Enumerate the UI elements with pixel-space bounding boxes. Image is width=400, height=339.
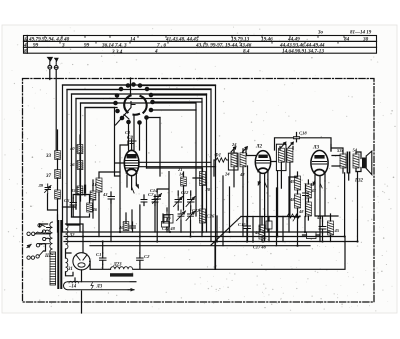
wire AVC diagonal	[211, 217, 287, 246]
band switch wiring loop 2	[67, 90, 211, 242]
band switch wiring loop 1	[63, 85, 216, 269]
mains selector terminals	[27, 224, 50, 260]
component box 47	[164, 215, 173, 224]
dial frequency table frame	[24, 36, 377, 54]
svg-text:36: 36	[69, 162, 75, 167]
grid box R7	[266, 221, 272, 229]
svg-text:19.46: 19.46	[261, 37, 273, 43]
padder cap C22	[174, 195, 183, 207]
svg-text:21: 21	[177, 167, 182, 172]
svg-text:20: 20	[205, 187, 211, 192]
wire output transformer	[331, 145, 356, 174]
coil L41	[69, 161, 83, 170]
wire speaker leads	[356, 152, 361, 172]
wire mid verticals	[99, 166, 358, 246]
table row 1 numerals	[23, 37, 369, 43]
wire AVC section	[247, 217, 269, 242]
ground terminal	[54, 66, 58, 70]
svg-text:С2: С2	[144, 254, 150, 259]
wire antenna leads	[50, 69, 56, 150]
IF transformer F1 primary	[224, 153, 237, 177]
transformer core	[58, 221, 61, 288]
cap C10	[141, 195, 147, 206]
heater bus bar	[64, 281, 137, 290]
AVC cap C15	[238, 221, 251, 233]
coil L37	[45, 170, 60, 180]
table row 2 numerals	[23, 43, 325, 49]
svg-text:8: 8	[24, 49, 27, 55]
tube L2 cathode arrows	[258, 180, 267, 187]
resistor R5	[90, 191, 96, 200]
oscillator coil L26	[200, 209, 215, 223]
trimmer C24	[243, 147, 248, 152]
band switch wiring loop 6	[85, 108, 117, 194]
svg-text:30: 30	[362, 37, 369, 43]
wire tube L2 leads	[260, 171, 268, 184]
svg-text:41.43.48. 44.45: 41.43.48. 44.45	[165, 37, 199, 43]
wire top mid trimmer leads	[234, 147, 293, 153]
wire tube L1 leads	[127, 174, 136, 190]
tube L1 (converter)	[124, 150, 139, 175]
filter cap C1	[96, 252, 106, 264]
oscillator coil L14	[179, 172, 186, 187]
transformer HV secondary	[66, 224, 69, 249]
output transformer primary	[337, 148, 346, 168]
cathode resistor R45	[328, 221, 340, 235]
wire heater drops	[75, 270, 82, 282]
band switch wiring loop 3	[72, 94, 207, 217]
filter cap C2	[137, 253, 150, 264]
cap C13	[130, 222, 136, 232]
wire rectifier connections	[35, 224, 90, 276]
rectifier tube L4	[73, 253, 90, 270]
mains plug arrow	[27, 245, 31, 248]
svg-text:С14: С14	[150, 188, 158, 193]
table row 3 numerals	[24, 49, 324, 55]
table header numerals above right	[317, 31, 372, 36]
svg-text:С26: С26	[207, 214, 215, 219]
table tick marks	[45, 36, 344, 44]
IF transformer F2 primary	[278, 148, 284, 162]
bus line 4	[90, 245, 310, 247]
svg-text:99: 99	[84, 43, 90, 49]
wire detector section	[278, 172, 306, 217]
svg-text:24: 24	[231, 142, 237, 147]
coil L33	[45, 151, 60, 160]
padder cap C23a	[186, 195, 195, 207]
svg-text:39: 39	[38, 183, 44, 188]
output transformer core	[347, 152, 349, 173]
output transformer secondary	[353, 148, 360, 169]
wire oscillator section	[147, 168, 203, 242]
wire osc grid	[99, 172, 120, 195]
svg-text:Д23: Д23	[113, 263, 123, 268]
wire top coupling run	[275, 138, 332, 151]
svg-text:7 . 6: 7 . 6	[157, 43, 166, 49]
svg-text:Л3: Л3	[96, 285, 103, 290]
loudspeaker Gr	[354, 151, 372, 183]
svg-text:С8: С8	[125, 130, 131, 135]
antenna terminal A	[48, 65, 52, 69]
svg-text:31: 31	[67, 267, 73, 272]
bus line 2	[64, 236, 345, 238]
band switch wiring loop 4	[76, 99, 202, 210]
coil L38	[55, 190, 61, 199]
trimmer C27	[281, 142, 286, 147]
rotary band switch S1	[114, 83, 154, 125]
coil L40	[69, 145, 83, 154]
IF transformer F2 shield box	[276, 144, 286, 170]
wire switch to tube and coils	[129, 116, 161, 177]
svg-text:8.4: 8.4	[243, 49, 250, 55]
wire switch contact stubs	[63, 85, 216, 118]
cap C25 pair	[162, 211, 171, 227]
coupling cap C18	[294, 131, 308, 142]
wire right step	[215, 237, 345, 270]
svg-text:14.64.90.91.34.7-13: 14.64.90.91.34.7-13	[282, 49, 324, 55]
svg-text:Ф1: Ф1	[215, 154, 221, 159]
svg-text:14: 14	[130, 37, 136, 43]
trimmer C28	[289, 142, 294, 147]
detector resistor R8	[289, 176, 301, 190]
svg-text:4: 4	[154, 49, 158, 55]
svg-text:81—14 19: 81—14 19	[350, 31, 372, 36]
volume pot R10 (zigzag)	[287, 214, 300, 221]
svg-text:С8: С8	[127, 136, 133, 141]
heater labels	[68, 285, 103, 290]
svg-text:40: 40	[69, 146, 75, 151]
wire L2 screen	[247, 154, 256, 156]
IF transformer F1 shield box	[228, 153, 238, 170]
svg-text:Л3: Л3	[312, 145, 320, 151]
svg-text:43: 43	[102, 192, 108, 197]
svg-text:Л2: Л2	[255, 144, 263, 150]
svg-text:С5: С5	[64, 198, 70, 203]
svg-text:35: 35	[70, 188, 76, 193]
svg-text:С12: С12	[181, 190, 189, 195]
wire filter section	[90, 237, 215, 270]
resistor R11	[118, 222, 129, 231]
oscillator coil L20	[200, 172, 211, 193]
cap C9	[102, 192, 115, 203]
wire tube L1 plate to loop1	[139, 162, 216, 166]
svg-text:46: 46	[118, 225, 124, 230]
svg-text:3о: 3о	[317, 31, 324, 36]
padder cap C21	[148, 192, 162, 204]
component box R44	[307, 232, 317, 239]
wire grid cap link	[115, 108, 132, 177]
svg-text:49: 49	[309, 182, 315, 187]
svg-text:46: 46	[92, 207, 98, 212]
transformer primary winding	[45, 222, 53, 254]
filter choke D23	[110, 263, 133, 277]
wire coil bank two	[63, 135, 94, 232]
svg-text:48: 48	[298, 209, 304, 214]
wire switch feed	[130, 78, 132, 94]
heater bus arrows	[128, 282, 136, 290]
tube L3 cathode arrows	[313, 180, 322, 188]
bus line 1	[63, 231, 331, 233]
svg-text:42: 42	[239, 172, 245, 177]
bus junction dots	[82, 231, 359, 247]
svg-text:41: 41	[91, 182, 96, 187]
svg-text:3: 3	[61, 43, 65, 49]
rectifier filament winding	[66, 258, 68, 272]
svg-text:45: 45	[334, 228, 340, 233]
coil L42 with core	[70, 185, 86, 196]
svg-text:С17 48: С17 48	[162, 226, 176, 231]
chassis boundary (dash-dot)	[23, 79, 375, 303]
IF transformer F2 secondary	[287, 148, 293, 162]
svg-text:37: 37	[45, 174, 52, 179]
svg-text:33: 33	[45, 154, 52, 159]
detector resistor R9	[289, 194, 301, 208]
tube L2 (IF amp)	[255, 151, 270, 174]
trimmer C39	[38, 183, 52, 194]
cathode cap C16	[319, 221, 326, 234]
antenna plug arrows	[47, 57, 58, 61]
svg-text:99: 99	[33, 43, 39, 49]
speaker voice coil	[362, 158, 365, 168]
wire coil bank left	[48, 130, 58, 232]
cap C17	[303, 189, 309, 200]
grid stopper resistor R13 (zigzag)	[214, 158, 228, 162]
transformer primary lower section	[50, 252, 56, 285]
resistor R46	[87, 203, 98, 212]
cap C11	[152, 195, 158, 206]
svg-text:3 3.4: 3 3.4	[111, 49, 123, 55]
AVC resistor chain R12	[305, 180, 316, 220]
wire F1 leads	[214, 149, 243, 187]
tube L1 grid cap C8	[127, 136, 136, 144]
resistor R3	[91, 178, 102, 192]
svg-text:24: 24	[224, 172, 230, 177]
wire F2 leads	[271, 162, 290, 217]
svg-text:49: 49	[289, 179, 295, 184]
svg-text:–14: –14	[68, 285, 77, 290]
wire output cathode	[303, 214, 339, 242]
IF transformer F1 secondary	[239, 153, 246, 177]
svg-text:32: 32	[69, 234, 76, 239]
tube L3 (output)	[311, 150, 328, 175]
svg-text:84: 84	[344, 37, 350, 43]
svg-text:С17 48: С17 48	[253, 245, 267, 250]
svg-text:С18: С18	[299, 131, 307, 136]
cap cluster C24b	[177, 210, 186, 221]
bus line 3	[64, 241, 358, 243]
svg-text:С1: С1	[96, 252, 101, 257]
svg-text:С22: С22	[192, 208, 200, 213]
svg-text:48: 48	[289, 197, 295, 202]
trimmer C23	[231, 147, 236, 152]
cap cluster C24c	[186, 210, 195, 221]
svg-text:47: 47	[165, 217, 171, 222]
svg-text:44: 44	[316, 215, 322, 220]
svg-text:С15: С15	[238, 222, 246, 227]
svg-text:36.14 7.4. 3: 36.14 7.4. 3	[101, 43, 127, 49]
heater lightning	[91, 283, 93, 289]
tube L1 cathode arrows	[132, 183, 139, 193]
scattered small labels	[125, 130, 322, 250]
band switch wiring loop 5	[81, 94, 207, 237]
wire left lower	[58, 195, 90, 222]
wire tube L3 leads	[315, 173, 325, 187]
svg-text:І 32: І 32	[354, 179, 363, 184]
wire transformer ground	[81, 291, 83, 313]
decoupling cap C40	[64, 198, 77, 209]
resistor R4	[254, 225, 265, 239]
svg-text:43: 43	[311, 188, 317, 193]
